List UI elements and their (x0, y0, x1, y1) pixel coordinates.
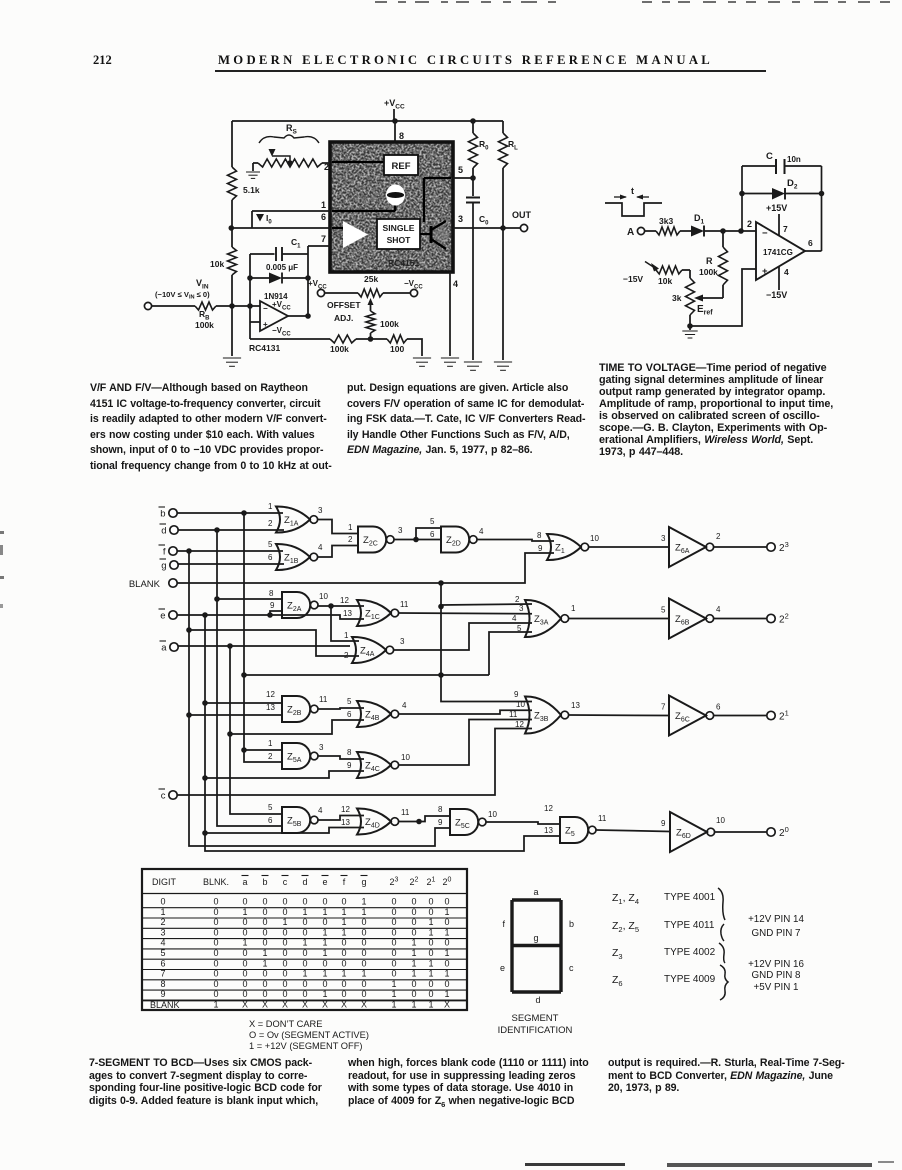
svg-text:0: 0 (242, 897, 247, 907)
svg-text:13: 13 (571, 701, 580, 710)
svg-text:Z1: Z1 (555, 543, 565, 556)
svg-text:X: X (302, 1000, 308, 1010)
svg-text:4: 4 (716, 605, 721, 614)
svg-text:0: 0 (428, 938, 433, 948)
svg-text:1: 1 (444, 948, 449, 958)
svg-text:C0: C0 (479, 214, 489, 227)
svg-text:0: 0 (361, 979, 366, 989)
svg-text:3: 3 (318, 506, 323, 515)
svg-text:22: 22 (779, 612, 789, 626)
svg-text:100k: 100k (380, 319, 399, 329)
svg-text:0: 0 (282, 927, 287, 937)
svg-text:0: 0 (282, 897, 287, 907)
svg-text:6: 6 (430, 530, 435, 539)
svg-text:d: d (161, 526, 166, 537)
svg-text:11: 11 (509, 710, 518, 719)
svg-text:1: 1 (302, 938, 307, 948)
svg-text:1: 1 (571, 604, 576, 613)
svg-text:BLNK.: BLNK. (203, 877, 229, 887)
svg-text:0: 0 (322, 917, 327, 927)
svg-text:0: 0 (302, 989, 307, 999)
svg-text:0: 0 (213, 948, 218, 958)
svg-text:d: d (535, 995, 540, 1005)
svg-text:0: 0 (444, 897, 449, 907)
svg-text:0: 0 (213, 958, 218, 968)
svg-text:1: 1 (268, 739, 273, 748)
svg-text:0: 0 (391, 938, 396, 948)
svg-text:RS: RS (286, 123, 298, 136)
svg-text:1: 1 (444, 989, 449, 999)
svg-text:25k: 25k (364, 274, 378, 284)
svg-text:Z1C: Z1C (365, 609, 380, 622)
svg-text:RC4131: RC4131 (249, 343, 280, 353)
svg-text:Z5B: Z5B (287, 816, 302, 829)
svg-text:0: 0 (444, 938, 449, 948)
svg-text:0: 0 (302, 979, 307, 989)
svg-text:BLANK: BLANK (150, 1000, 180, 1010)
svg-text:0: 0 (391, 897, 396, 907)
svg-text:Z5C: Z5C (455, 818, 470, 831)
svg-text:R: R (706, 256, 713, 266)
svg-text:Z4D: Z4D (365, 817, 380, 830)
svg-text:−15V: −15V (623, 274, 643, 284)
svg-text:4: 4 (318, 806, 323, 815)
svg-text:0: 0 (282, 989, 287, 999)
svg-text:X: X (322, 1000, 328, 1010)
svg-text:3: 3 (319, 743, 324, 752)
svg-text:1: 1 (322, 989, 327, 999)
svg-text:+VCC: +VCC (308, 279, 327, 291)
svg-text:6: 6 (268, 553, 273, 562)
svg-text:0: 0 (262, 897, 267, 907)
svg-text:0: 0 (282, 979, 287, 989)
svg-text:0: 0 (411, 907, 416, 917)
svg-text:10: 10 (590, 534, 599, 543)
svg-text:Z1A: Z1A (284, 515, 299, 528)
svg-text:8: 8 (269, 589, 274, 598)
svg-text:0: 0 (242, 917, 247, 927)
svg-text:10: 10 (516, 700, 525, 709)
svg-text:23: 23 (779, 540, 789, 554)
svg-text:1: 1 (348, 523, 353, 532)
svg-text:1: 1 (411, 948, 416, 958)
svg-text:9: 9 (538, 544, 543, 553)
svg-text:11: 11 (401, 808, 410, 817)
svg-text:Z6C: Z6C (675, 711, 690, 724)
svg-text:2: 2 (160, 917, 165, 927)
svg-text:13: 13 (343, 609, 352, 618)
svg-text:I0: I0 (266, 213, 272, 226)
svg-text:0: 0 (262, 917, 267, 927)
svg-text:−: − (762, 228, 768, 239)
svg-text:11: 11 (598, 814, 607, 823)
svg-text:3: 3 (398, 526, 403, 535)
svg-text:0: 0 (262, 938, 267, 948)
svg-text:0: 0 (428, 979, 433, 989)
svg-text:0: 0 (361, 927, 366, 937)
svg-text:g: g (533, 933, 538, 943)
svg-text:100k: 100k (330, 344, 349, 354)
svg-text:0: 0 (361, 938, 366, 948)
svg-text:2: 2 (268, 519, 273, 528)
svg-text:1: 1 (242, 907, 247, 917)
svg-text:f: f (163, 547, 166, 558)
svg-text:3: 3 (661, 534, 666, 543)
svg-text:3: 3 (400, 637, 405, 646)
svg-text:0: 0 (322, 958, 327, 968)
svg-text:7: 7 (661, 703, 666, 712)
svg-text:9: 9 (514, 690, 519, 699)
svg-text:1: 1 (428, 927, 433, 937)
svg-text:d: d (302, 877, 307, 887)
svg-text:1: 1 (428, 917, 433, 927)
svg-text:1: 1 (341, 927, 346, 937)
svg-text:12: 12 (515, 720, 524, 729)
svg-text:10: 10 (401, 753, 410, 762)
svg-text:0: 0 (411, 927, 416, 937)
svg-text:12: 12 (544, 804, 553, 813)
svg-text:C: C (766, 151, 773, 162)
svg-text:X: X (282, 1000, 288, 1010)
svg-text:0: 0 (341, 897, 346, 907)
svg-text:8: 8 (160, 979, 165, 989)
svg-text:2: 2 (348, 535, 353, 544)
svg-text:Z2D: Z2D (446, 535, 461, 548)
svg-text:0: 0 (262, 927, 267, 937)
svg-text:e: e (500, 963, 505, 973)
svg-text:−: − (263, 304, 268, 313)
svg-text:1: 1 (361, 969, 366, 979)
svg-text:1: 1 (391, 979, 396, 989)
svg-text:0: 0 (262, 907, 267, 917)
svg-text:0: 0 (361, 917, 366, 927)
svg-text:5: 5 (458, 165, 463, 175)
svg-text:Z6A: Z6A (675, 543, 690, 556)
svg-text:3: 3 (519, 604, 524, 613)
svg-text:a: a (533, 887, 538, 897)
svg-text:8: 8 (399, 131, 404, 141)
svg-text:4: 4 (784, 267, 789, 277)
svg-text:0: 0 (428, 948, 433, 958)
svg-text:12: 12 (341, 805, 350, 814)
svg-text:BLANK: BLANK (129, 579, 161, 590)
svg-text:0: 0 (391, 907, 396, 917)
svg-text:0: 0 (213, 938, 218, 948)
svg-text:g: g (361, 877, 366, 887)
svg-text:0: 0 (242, 989, 247, 999)
svg-text:20: 20 (443, 877, 452, 888)
svg-text:0: 0 (282, 958, 287, 968)
svg-text:R0: R0 (479, 139, 489, 152)
svg-text:e: e (160, 611, 165, 622)
svg-text:Z3B: Z3B (534, 711, 549, 724)
svg-text:1: 1 (213, 1000, 218, 1010)
svg-text:0: 0 (411, 989, 416, 999)
svg-text:0: 0 (322, 897, 327, 907)
svg-text:c: c (283, 877, 288, 887)
svg-text:5: 5 (268, 540, 273, 549)
svg-text:1: 1 (444, 969, 449, 979)
svg-text:ADJ.: ADJ. (334, 313, 353, 323)
svg-text:3: 3 (458, 214, 463, 224)
svg-text:1: 1 (411, 938, 416, 948)
svg-text:0: 0 (242, 969, 247, 979)
svg-text:2: 2 (268, 752, 273, 761)
svg-text:1: 1 (411, 969, 416, 979)
svg-text:5: 5 (160, 948, 165, 958)
svg-text:b: b (160, 509, 165, 520)
svg-text:6: 6 (160, 958, 165, 968)
svg-text:13: 13 (266, 703, 275, 712)
svg-text:0: 0 (302, 897, 307, 907)
svg-text:5: 5 (517, 624, 522, 633)
svg-text:1: 1 (262, 948, 267, 958)
svg-text:D1: D1 (694, 213, 705, 226)
svg-text:1: 1 (322, 948, 327, 958)
svg-text:OFFSET: OFFSET (327, 300, 361, 310)
svg-text:5: 5 (268, 803, 273, 812)
svg-text:4: 4 (479, 527, 484, 536)
svg-text:RL: RL (508, 139, 518, 152)
svg-text:RC4151: RC4151 (388, 258, 419, 268)
svg-text:0: 0 (411, 917, 416, 927)
svg-text:5: 5 (347, 697, 352, 706)
svg-text:1: 1 (302, 907, 307, 917)
svg-text:12: 12 (266, 690, 275, 699)
svg-text:X: X (361, 1000, 367, 1010)
svg-text:Eref: Eref (697, 304, 713, 317)
svg-text:b: b (262, 877, 267, 887)
svg-text:Z4A: Z4A (360, 646, 375, 659)
svg-text:100: 100 (390, 344, 404, 354)
svg-text:6: 6 (347, 710, 352, 719)
svg-text:11: 11 (400, 600, 409, 609)
svg-text:100k: 100k (195, 320, 214, 330)
svg-text:0: 0 (242, 927, 247, 937)
svg-text:0: 0 (391, 969, 396, 979)
svg-text:1: 1 (341, 907, 346, 917)
svg-text:SINGLE: SINGLE (383, 223, 415, 233)
svg-text:0: 0 (302, 948, 307, 958)
svg-text:X: X (242, 1000, 248, 1010)
svg-text:Z5: Z5 (565, 826, 575, 839)
svg-text:X: X (262, 1000, 268, 1010)
svg-text:7: 7 (783, 224, 788, 234)
svg-text:7: 7 (321, 234, 326, 244)
svg-text:0: 0 (282, 948, 287, 958)
svg-text:Z4B: Z4B (365, 710, 380, 723)
svg-text:10k: 10k (210, 259, 224, 269)
svg-text:C1: C1 (291, 237, 301, 250)
svg-text:0: 0 (242, 979, 247, 989)
svg-text:8: 8 (347, 748, 352, 757)
svg-text:0: 0 (361, 948, 366, 958)
svg-text:+VCC: +VCC (384, 98, 405, 111)
svg-text:1: 1 (428, 1000, 433, 1010)
svg-text:1: 1 (341, 917, 346, 927)
svg-text:(−10V ≤ VIN ≤ 0): (−10V ≤ VIN ≤ 0) (155, 290, 210, 301)
svg-text:1: 1 (322, 938, 327, 948)
svg-text:f: f (343, 877, 346, 887)
svg-text:9: 9 (270, 601, 275, 610)
svg-text:1: 1 (428, 969, 433, 979)
svg-text:2: 2 (344, 651, 349, 660)
svg-text:6: 6 (268, 816, 273, 825)
svg-text:0: 0 (302, 917, 307, 927)
svg-text:0: 0 (444, 917, 449, 927)
svg-text:1: 1 (322, 907, 327, 917)
svg-text:4: 4 (160, 938, 165, 948)
svg-text:13: 13 (341, 818, 350, 827)
svg-text:3: 3 (160, 927, 165, 937)
svg-text:OUT: OUT (512, 210, 532, 220)
svg-text:4: 4 (512, 614, 517, 623)
svg-text:0: 0 (242, 948, 247, 958)
svg-text:Z4C: Z4C (365, 761, 380, 774)
svg-text:1: 1 (322, 927, 327, 937)
svg-text:1: 1 (361, 907, 366, 917)
svg-text:0: 0 (361, 989, 366, 999)
svg-text:4: 4 (318, 543, 323, 552)
svg-text:0: 0 (213, 897, 218, 907)
svg-text:1: 1 (321, 200, 326, 210)
svg-text:1: 1 (428, 958, 433, 968)
svg-text:1: 1 (361, 897, 366, 907)
svg-text:20: 20 (779, 825, 789, 839)
svg-text:e: e (322, 877, 327, 887)
svg-text:10n: 10n (787, 155, 801, 164)
svg-text:3k3: 3k3 (659, 216, 673, 226)
svg-text:−VCC: −VCC (272, 326, 291, 338)
svg-text:1: 1 (444, 907, 449, 917)
svg-text:0: 0 (160, 897, 165, 907)
svg-text:1: 1 (444, 927, 449, 937)
svg-text:0: 0 (391, 927, 396, 937)
svg-text:Z6B: Z6B (675, 614, 690, 627)
svg-text:6: 6 (321, 212, 326, 222)
svg-text:D2: D2 (787, 178, 798, 191)
svg-text:21: 21 (427, 877, 436, 888)
svg-text:0: 0 (341, 989, 346, 999)
svg-text:1: 1 (411, 958, 416, 968)
svg-text:0: 0 (302, 927, 307, 937)
svg-text:c: c (161, 791, 166, 802)
svg-text:t: t (631, 186, 634, 196)
svg-text:0: 0 (391, 958, 396, 968)
svg-text:5: 5 (661, 606, 666, 615)
svg-text:2: 2 (716, 532, 721, 541)
svg-text:10: 10 (716, 816, 725, 825)
svg-text:0: 0 (341, 938, 346, 948)
svg-text:b: b (569, 919, 574, 929)
svg-text:4: 4 (402, 701, 407, 710)
svg-text:1: 1 (282, 917, 287, 927)
svg-text:7: 7 (160, 969, 165, 979)
svg-text:Z6D: Z6D (676, 828, 691, 841)
svg-text:1: 1 (322, 969, 327, 979)
svg-text:0: 0 (282, 907, 287, 917)
svg-text:0: 0 (391, 948, 396, 958)
svg-text:X: X (444, 1000, 450, 1010)
svg-text:22: 22 (410, 877, 419, 888)
svg-text:0: 0 (213, 979, 218, 989)
svg-text:12: 12 (340, 596, 349, 605)
svg-text:0: 0 (428, 897, 433, 907)
svg-text:9: 9 (160, 989, 165, 999)
svg-text:1: 1 (344, 631, 349, 640)
svg-text:0: 0 (213, 927, 218, 937)
svg-text:3k: 3k (672, 293, 682, 303)
svg-text:1: 1 (242, 938, 247, 948)
svg-text:Z5A: Z5A (287, 752, 302, 765)
svg-text:0: 0 (411, 897, 416, 907)
svg-text:0: 0 (341, 948, 346, 958)
svg-text:1: 1 (391, 1000, 396, 1010)
svg-text:a: a (161, 643, 167, 654)
svg-text:9: 9 (438, 818, 443, 827)
svg-text:0: 0 (262, 979, 267, 989)
svg-text:VIN: VIN (196, 278, 209, 291)
svg-text:Z2A: Z2A (287, 601, 302, 614)
svg-text:0: 0 (444, 979, 449, 989)
svg-text:+: + (263, 320, 268, 329)
svg-text:0: 0 (391, 917, 396, 927)
svg-text:0: 0 (428, 907, 433, 917)
svg-text:0: 0 (411, 979, 416, 989)
svg-text:0: 0 (213, 969, 218, 979)
svg-text:1: 1 (268, 502, 273, 511)
svg-text:+: + (762, 266, 768, 277)
svg-text:g: g (161, 561, 166, 572)
svg-text:A: A (627, 227, 634, 238)
svg-text:10: 10 (319, 592, 328, 601)
svg-text:DIGIT: DIGIT (152, 877, 177, 887)
svg-text:X: X (341, 1000, 347, 1010)
svg-text:1: 1 (391, 989, 396, 999)
svg-text:0: 0 (242, 958, 247, 968)
svg-text:0: 0 (341, 958, 346, 968)
svg-text:21: 21 (779, 709, 789, 723)
svg-text:0: 0 (444, 958, 449, 968)
svg-text:1: 1 (160, 907, 165, 917)
svg-text:10k: 10k (658, 276, 672, 286)
svg-text:0: 0 (361, 958, 366, 968)
svg-text:Z3A: Z3A (534, 614, 549, 627)
svg-text:4: 4 (453, 279, 458, 289)
svg-text:9: 9 (661, 819, 666, 828)
svg-text:0: 0 (322, 979, 327, 989)
svg-text:0: 0 (262, 969, 267, 979)
svg-text:REF: REF (392, 161, 411, 172)
svg-text:c: c (569, 963, 574, 973)
svg-text:13: 13 (544, 826, 553, 835)
svg-text:5: 5 (430, 517, 435, 526)
svg-text:11: 11 (319, 695, 328, 704)
svg-text:Z2C: Z2C (363, 535, 378, 548)
svg-text:+15V: +15V (766, 203, 787, 213)
svg-text:2: 2 (747, 219, 752, 229)
svg-text:2: 2 (515, 595, 520, 604)
svg-text:8: 8 (438, 805, 443, 814)
svg-text:6: 6 (808, 238, 813, 248)
svg-text:a: a (242, 877, 247, 887)
svg-text:23: 23 (390, 877, 399, 888)
svg-text:6: 6 (716, 703, 721, 712)
svg-text:0: 0 (282, 969, 287, 979)
svg-text:1: 1 (411, 1000, 416, 1010)
svg-text:10: 10 (488, 810, 497, 819)
svg-text:8: 8 (537, 531, 542, 540)
